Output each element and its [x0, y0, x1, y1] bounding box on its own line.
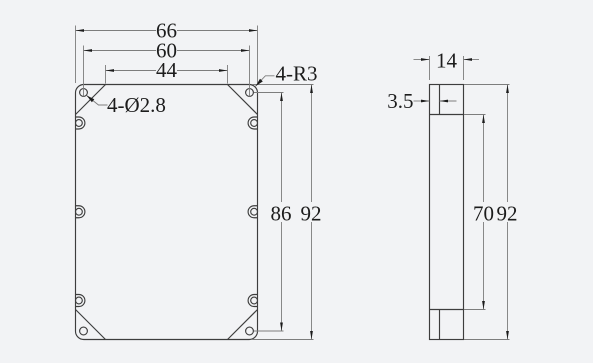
- extension line 44 left: [105, 65, 107, 84]
- leader line 4-Dia2.8: [87, 95, 108, 105]
- side view outline: [430, 85, 464, 340]
- extension line 70 top: [464, 114, 486, 116]
- arrow 66 right: [249, 29, 258, 32]
- extension line 60 left: [83, 46, 85, 97]
- svg-text:4-R3: 4-R3: [276, 62, 318, 86]
- arrow 44 right: [219, 69, 228, 72]
- arrow 14 left: [421, 58, 430, 61]
- boss hole right top: [251, 120, 258, 127]
- boss hole right bottom: [251, 297, 258, 304]
- extension line 92 side bottom: [464, 339, 510, 341]
- dimension tail 14 right: [464, 59, 480, 61]
- arrow 92 side top: [506, 85, 509, 94]
- extension line 14 right: [463, 56, 465, 80]
- dimension tail 3.5 left: [414, 100, 430, 102]
- arrow 3.5 left: [421, 100, 430, 103]
- boss tab right top: [248, 117, 257, 129]
- svg-text:3.5: 3.5: [387, 89, 413, 113]
- dimension line 66: [76, 30, 157, 32]
- arrow 86 bottom: [280, 323, 283, 332]
- extension line 44 right: [227, 65, 229, 84]
- leader line 4-R3: [256, 76, 275, 86]
- extension line 86 top: [254, 92, 284, 94]
- boss hole left middle: [76, 208, 83, 215]
- svg-text:14: 14: [436, 49, 458, 73]
- arrow 66 left: [76, 29, 85, 32]
- corner gusset bottom-right: [228, 310, 258, 340]
- arrow 60 left: [84, 49, 93, 52]
- extension line 92 top: [252, 84, 314, 86]
- boss tab right bottom: [248, 295, 257, 307]
- arrow 70 top: [482, 115, 485, 124]
- boss tab left middle: [76, 206, 85, 218]
- plate outline (front view): [76, 85, 258, 340]
- side view lid line bottom: [439, 310, 441, 340]
- corner hole top-left: [80, 89, 88, 97]
- arrow 44 left: [106, 69, 115, 72]
- boss tab left top: [76, 117, 85, 129]
- side view top step line: [430, 114, 464, 116]
- corner hole bottom-left: [80, 327, 88, 335]
- svg-text:86: 86: [271, 202, 292, 226]
- dimension line 70: [483, 115, 485, 203]
- arrow 3.5 right: [440, 100, 449, 103]
- corner gusset top-right: [228, 85, 258, 115]
- extension line 92 side top: [464, 84, 510, 86]
- boss hole right middle: [251, 208, 258, 215]
- arrow 60 right: [241, 49, 250, 52]
- arrow 92 side bottom: [506, 331, 509, 340]
- arrow 70 bottom: [482, 301, 485, 310]
- dimension line 44: [106, 70, 157, 72]
- dimension tail 3.5 right: [440, 100, 457, 102]
- svg-text:44: 44: [156, 58, 178, 82]
- corner hole top-right: [246, 89, 254, 97]
- dimension line 92 side: [507, 85, 509, 203]
- extension line 70 bottom: [464, 309, 486, 311]
- extension line 66 left: [75, 26, 77, 84]
- svg-text:92: 92: [497, 202, 518, 226]
- svg-text:4-Ø2.8: 4-Ø2.8: [107, 93, 166, 117]
- svg-text:92: 92: [301, 202, 322, 226]
- boss tab left bottom: [76, 295, 85, 307]
- arrow 92 bottom: [310, 331, 313, 340]
- side view bottom step line: [430, 309, 464, 311]
- leader arrow 4-Dia2.8: [87, 95, 95, 102]
- boss tab right middle: [248, 206, 257, 218]
- arrow 86 top: [280, 93, 283, 102]
- dimension tail 14 left: [414, 59, 430, 61]
- side view lid line top: [439, 85, 441, 115]
- arrow 14 right: [464, 58, 473, 61]
- corner hole bottom-right: [246, 327, 254, 335]
- svg-text:70: 70: [473, 202, 494, 226]
- extension line 86 bottom: [254, 330, 284, 332]
- corner gusset bottom-left: [76, 310, 106, 340]
- arrow 92 top: [310, 85, 313, 94]
- dimension line 60: [84, 50, 157, 52]
- extension line 14 left: [429, 56, 431, 80]
- boss hole left bottom: [76, 297, 83, 304]
- extension line 60 right: [249, 46, 251, 97]
- dimension line 92: [311, 85, 313, 203]
- extension line 66 right: [257, 26, 259, 84]
- boss hole left top: [76, 120, 83, 127]
- extension line 92 bottom: [252, 339, 314, 341]
- corner gusset top-left: [76, 85, 106, 115]
- leader arrow 4-R3: [256, 79, 263, 86]
- dimension line 86: [281, 93, 283, 203]
